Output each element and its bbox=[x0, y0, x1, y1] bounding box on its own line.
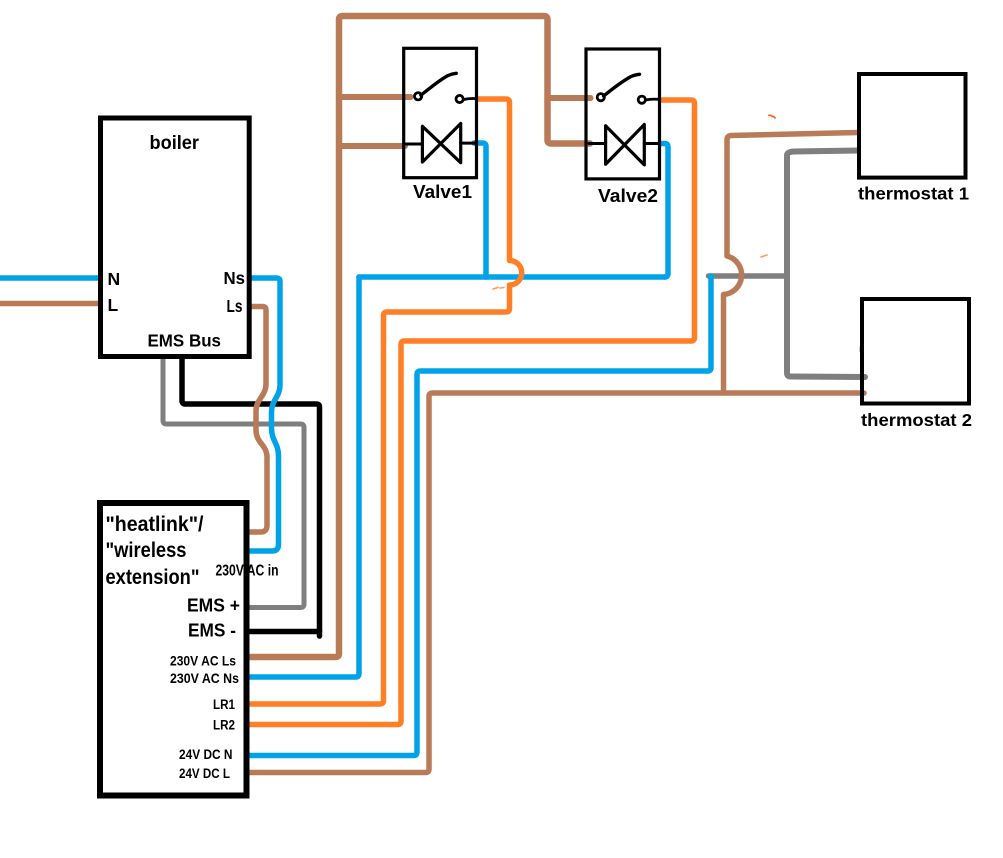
wire: Valve1 valve blue drop bbox=[474, 143, 486, 277]
svg-text:Valve1: Valve1 bbox=[413, 182, 472, 202]
wire: heatlink 230V AC Ns blue riser bbox=[250, 277, 359, 677]
wire: mains N blue into boiler bbox=[0, 275, 103, 281]
svg-text:thermostat 2: thermostat 2 bbox=[861, 410, 972, 430]
svg-text:extension": extension" bbox=[106, 566, 200, 589]
switch SW1 right lead bbox=[463, 99, 476, 100]
switch SW2 left contact circle bbox=[597, 94, 604, 101]
svg-text:230V AC Ls: 230V AC Ls bbox=[170, 653, 236, 669]
wire: mains L brown into boiler bbox=[0, 301, 103, 307]
wire: orange LR1 to Valve1 switch (with hop over blue bus) bbox=[250, 99, 522, 704]
wire: gray thermostat trunk to thermostat 1 and 2 bbox=[787, 151, 865, 378]
valve V2 right terminal lead bbox=[644, 142, 658, 145]
stray orange speck near gray bus bbox=[761, 255, 767, 257]
valve V1 bowtie symbol bbox=[422, 124, 460, 163]
wire: boiler Ns to heatlink 230V AC in (blue, with jog) bbox=[250, 278, 280, 551]
switch SW2 right contact circle bbox=[638, 96, 645, 103]
wire: EMS - black horizontal into heatlink bbox=[250, 629, 320, 635]
thermostat 1 box bbox=[859, 74, 966, 178]
svg-text:Ls: Ls bbox=[227, 296, 243, 316]
svg-text:LR1: LR1 bbox=[213, 697, 235, 712]
heatlink box bbox=[100, 503, 247, 796]
valve V1 box bbox=[404, 48, 477, 177]
svg-text:Ns: Ns bbox=[224, 268, 246, 288]
svg-text:"heatlink"/: "heatlink"/ bbox=[106, 513, 204, 536]
svg-text:24V DC N: 24V DC N bbox=[179, 747, 233, 762]
wire: boiler Ls to heatlink 230V AC in (brown, with jog) bbox=[250, 307, 267, 533]
valve V1 left terminal lead bbox=[406, 143, 423, 146]
wire: orange LR2 to Valve2 switch bbox=[250, 100, 695, 725]
svg-text:N: N bbox=[108, 269, 121, 289]
svg-text:thermostat 1: thermostat 1 bbox=[858, 184, 969, 204]
wire: blue 24V DC N riser to thermostat bus bbox=[250, 276, 711, 756]
svg-text:EMS -: EMS - bbox=[188, 621, 236, 641]
wire: heatlink 230V AC Ls brown riser to valves bbox=[250, 16, 590, 657]
wire: blue bus horizontal bbox=[359, 274, 665, 280]
svg-text:24V DC L: 24V DC L bbox=[179, 766, 230, 781]
switch SW1 blade bbox=[421, 73, 456, 95]
wire: Valve2 valve blue drop bbox=[661, 144, 668, 278]
svg-text:230V AC in: 230V AC in bbox=[216, 563, 279, 580]
valve V2 box bbox=[586, 49, 660, 179]
wire: brown branch to Valve2 switch bbox=[548, 95, 591, 101]
svg-text:230V AC Ns: 230V AC Ns bbox=[170, 670, 239, 686]
valve V1 right terminal lead bbox=[461, 142, 475, 145]
switch SW1 left contact circle bbox=[415, 93, 422, 100]
stray orange speck near LR1 riser bbox=[493, 288, 504, 290]
switch SW1 right contact circle bbox=[456, 95, 463, 102]
wire: gray thermostat bus horizontal bbox=[709, 273, 788, 279]
boiler box bbox=[101, 118, 250, 357]
thermostat 2 box bbox=[862, 299, 969, 404]
svg-text:EMS +: EMS + bbox=[187, 596, 240, 616]
svg-text:Valve2: Valve2 bbox=[598, 186, 658, 206]
wire: EMS Bus gray (boiler to heatlink EMS +) bbox=[163, 357, 304, 608]
wire: brown 24V DC L to thermostat 2 bbox=[250, 393, 864, 773]
svg-text:EMS Bus: EMS Bus bbox=[148, 331, 222, 351]
svg-text:L: L bbox=[108, 295, 119, 315]
switch SW2 blade bbox=[604, 74, 640, 96]
pen mark on thermostat 2 left edge bbox=[860, 348, 863, 352]
svg-text:LR2: LR2 bbox=[213, 718, 235, 733]
wire: EMS Bus black (boiler to heatlink EMS -) bbox=[182, 357, 320, 636]
svg-text:boiler: boiler bbox=[150, 133, 200, 154]
valve V2 bowtie symbol bbox=[606, 125, 645, 165]
svg-text:"wireless: "wireless bbox=[106, 539, 187, 562]
wire: brown riser to thermostat 1 (with hop over gray bus) bbox=[724, 133, 859, 392]
wire: brown branch to Valve1 switch bbox=[339, 94, 411, 100]
valve V2 left terminal lead bbox=[589, 142, 606, 145]
switch SW2 right lead bbox=[646, 98, 659, 102]
stray orange speck near thermostat 1 bbox=[769, 115, 775, 118]
wire: brown branch to Valve1 valve bbox=[339, 143, 405, 149]
